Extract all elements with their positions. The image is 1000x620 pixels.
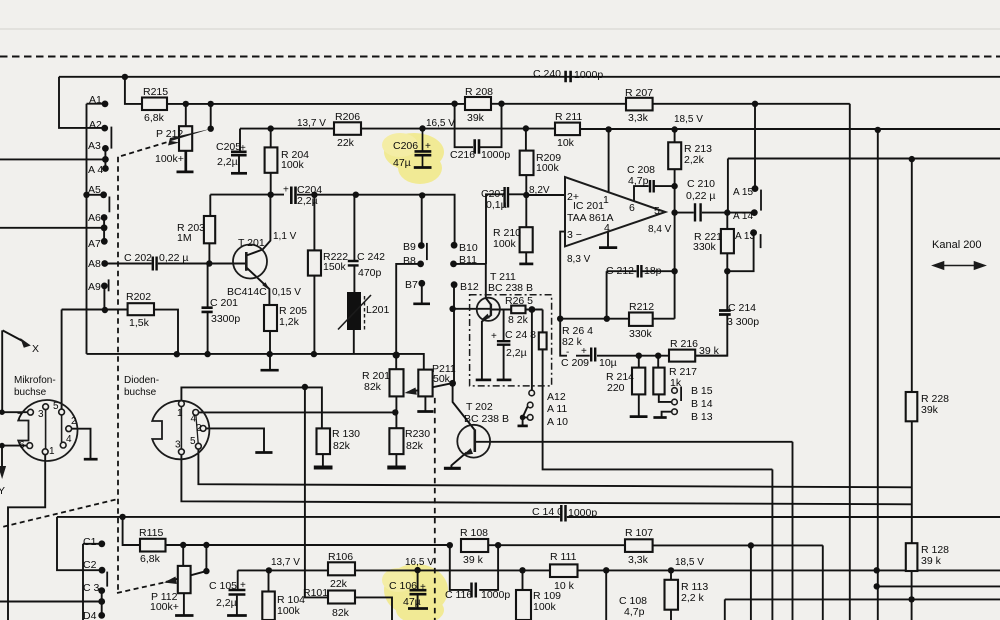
- svg-text:3: 3: [175, 440, 181, 451]
- mic pin 5 contact: [59, 409, 65, 415]
- svg-text:3 300p: 3 300p: [727, 316, 759, 328]
- dioden pin 5 contact: [196, 443, 202, 449]
- svg-text:C2: C2: [83, 559, 97, 571]
- svg-text:100k+: 100k+: [150, 601, 179, 613]
- junction dots C209 row: [636, 353, 642, 359]
- junction dot Kanal wire x912: [909, 156, 915, 162]
- wire: X arrow diagonal: [3, 330, 23, 341]
- junction dot P212 wiper: [208, 126, 214, 132]
- resistor R214: [632, 368, 645, 395]
- svg-text:100k: 100k: [493, 238, 517, 250]
- resistor R207: [626, 98, 653, 111]
- svg-text:10k: 10k: [557, 137, 575, 149]
- wire: A9 drop to R202 node: [103, 286, 105, 310]
- svg-text:100k+: 100k+: [155, 153, 184, 165]
- junction dot A15 riser: [752, 101, 758, 107]
- svg-text:C 240: C 240: [533, 68, 561, 80]
- wire: B12 column down to wiper node: [453, 287, 455, 383]
- junction dot R213 top: [671, 126, 677, 132]
- capacitor C240: [566, 71, 571, 82]
- inductor L201 dashed core line: [364, 296, 366, 331]
- wire: output column x=674.6: [674, 130, 676, 319]
- wire: riser from y77 to R215 row: [125, 77, 142, 104]
- svg-text:C 212: C 212: [606, 265, 634, 277]
- svg-text:1: 1: [177, 408, 183, 419]
- resistor R265: [511, 306, 525, 314]
- wire: long vertical x=772: [771, 469, 773, 620]
- capacitor C105 plates: [229, 590, 246, 595]
- wire: C205 stem to ground: [238, 155, 240, 172]
- contact tick C2-C3: [106, 572, 108, 587]
- terminal dot A8: [101, 260, 108, 267]
- wire: dioden pin5 down then right (y approx 484): [198, 449, 911, 487]
- svg-text:6,8k: 6,8k: [144, 112, 165, 124]
- resistor R221: [721, 229, 734, 253]
- potentiometer P112 body: [178, 566, 191, 593]
- wire: X linkage vertical at left edge: [1, 330, 3, 412]
- wire: R104 riser: [268, 570, 270, 591]
- svg-text:B7: B7: [405, 279, 418, 291]
- wire: riser P212 top: [185, 104, 187, 126]
- wire: pin6 riser + C208 row: [634, 186, 675, 201]
- svg-text:47µ: 47µ: [393, 157, 411, 169]
- wire: C207 wire + drop to B11 node: [486, 194, 526, 264]
- svg-text:7: 7: [17, 412, 23, 423]
- svg-text:Y: Y: [0, 485, 5, 497]
- ground below C206: [414, 166, 432, 169]
- ground at op-amp pin4: [599, 246, 617, 249]
- highlight around C106: [382, 564, 448, 620]
- wire: B8 jog to R201 column: [396, 264, 420, 355]
- svg-text:18,5 V: 18,5 V: [674, 114, 703, 125]
- resistor R208: [465, 97, 491, 110]
- svg-text:1000p: 1000p: [568, 507, 597, 519]
- terminal dot B12: [451, 281, 458, 288]
- terminal dot A14: [751, 209, 758, 216]
- junction dots 13,7/16,5V bottom rail: [266, 567, 272, 573]
- resistor R205: [264, 305, 277, 331]
- svg-text:IC 201: IC 201: [573, 200, 604, 212]
- svg-text:A1: A1: [89, 94, 102, 106]
- terminal B13: [672, 409, 678, 415]
- svg-text:R230: R230: [405, 428, 430, 440]
- dashed separator line top: [0, 56, 1000, 58]
- junction dots R115 row: [180, 542, 186, 548]
- junction dot C212 node: [671, 268, 677, 274]
- wire: A13 drop: [727, 233, 753, 272]
- resistor R209: [520, 151, 534, 176]
- resistor R201: [390, 369, 404, 396]
- svg-text:buchse: buchse: [14, 387, 47, 398]
- wire: R204 bottom riser: [270, 173, 272, 195]
- svg-text:6: 6: [19, 440, 25, 451]
- svg-text:39k: 39k: [467, 112, 485, 124]
- ground below R205: [261, 369, 279, 372]
- ground below P212: [177, 151, 194, 172]
- wire: row y=586 right part: [877, 585, 1000, 587]
- wire: R113 riser: [670, 570, 672, 579]
- op-amp IC201 triangle: [565, 177, 665, 246]
- svg-text:1000p: 1000p: [481, 589, 510, 601]
- svg-text:C1: C1: [83, 536, 97, 548]
- svg-text:R212: R212: [629, 301, 654, 313]
- svg-text:1,1 V: 1,1 V: [273, 231, 297, 242]
- junction dots 13,7V / 16,5V rail: [268, 125, 274, 131]
- wire: C216 bypass loop around R208: [455, 104, 502, 148]
- svg-text:10µ: 10µ: [599, 357, 617, 369]
- potentiometer P212 body: [179, 126, 192, 151]
- svg-text:+: +: [491, 331, 497, 342]
- wire: 13,7V / 16,5V rail y=128.7: [240, 128, 1000, 130]
- svg-text:220: 220: [607, 382, 625, 394]
- resistor R212: [629, 313, 653, 326]
- mechanical link dashed branch to mic: [0, 500, 116, 528]
- wire: R222 top riser: [313, 195, 315, 251]
- junction dot R265 out: [529, 306, 536, 313]
- wire: R204 top riser: [270, 129, 272, 148]
- wire: C105 branch from 13,7V node: [238, 570, 269, 589]
- wire: long vertical x=878: [877, 130, 879, 620]
- capacitor C210 plates: [695, 203, 701, 221]
- wire: R264 column down to C209 row: [560, 319, 567, 356]
- svg-text:B 15: B 15: [691, 385, 713, 397]
- inductor L201 adjust arrow: [338, 295, 371, 330]
- junction dots C204 row: [268, 192, 274, 198]
- svg-text:A2: A2: [89, 119, 102, 131]
- wire: R209 top riser: [525, 129, 527, 151]
- terminal dot B8: [417, 261, 424, 268]
- wire: mic left pin to edge: [2, 411, 28, 413]
- wire: C202 row to T201 base: [105, 263, 246, 265]
- junction dot pin1-row branch: [302, 384, 308, 390]
- wire: A3-A4 contact link: [104, 148, 106, 168]
- wire: C205 branch: [239, 129, 241, 152]
- svg-text:2,2k: 2,2k: [684, 154, 705, 166]
- capacitor C248 plates: [497, 341, 511, 345]
- wire: P112 wiper node riser: [205, 545, 207, 571]
- wire: R222 bottom riser: [313, 276, 315, 354]
- wire: R214 stems: [638, 356, 640, 416]
- svg-text:R 211: R 211: [555, 111, 582, 123]
- svg-text:16,5 V: 16,5 V: [426, 118, 455, 129]
- wire: top horizontal rail y=77: [59, 76, 1000, 78]
- terminal dot A13: [750, 229, 757, 236]
- svg-text:+: +: [240, 143, 246, 154]
- svg-text:C 209: C 209: [561, 357, 589, 369]
- terminal dot A3: [102, 145, 109, 152]
- junction dot x878 rail: [875, 127, 881, 133]
- resistor R216: [669, 350, 695, 362]
- mic internal contact 5-4: [61, 415, 63, 443]
- resistor R264 small body: [539, 332, 547, 349]
- capacitor C206 stem: [422, 129, 424, 167]
- svg-text:C 214: C 214: [728, 302, 756, 314]
- ground below R210: [519, 263, 533, 266]
- svg-text:R 111: R 111: [550, 551, 577, 563]
- wire: R109 riser: [522, 570, 524, 590]
- wire: C209 row y=355.7: [576, 355, 727, 357]
- wire: R221 column: [726, 213, 728, 272]
- svg-text:D4: D4: [83, 610, 97, 620]
- mic pin 3 contact: [43, 404, 49, 410]
- dioden pin 3 contact: [179, 449, 185, 455]
- wire: chain down then right to x=772: [543, 350, 773, 470]
- terminal dot A6: [101, 214, 108, 221]
- resistor R130: [317, 428, 331, 454]
- resistor R113: [665, 580, 679, 610]
- wire: riser from C140 row to R115 row: [123, 517, 140, 545]
- svg-text:5: 5: [53, 401, 59, 412]
- ground below C105: [227, 614, 247, 617]
- junction dot C140 row: [119, 514, 125, 520]
- mechanical link dashed to P112: [117, 582, 166, 593]
- resistor R115: [140, 539, 166, 552]
- wire: op-amp pin2 wire: [526, 194, 565, 196]
- wire: C140 row left corner down to C2: [57, 517, 100, 570]
- wire: B9 riser: [421, 195, 423, 245]
- resistor R222: [308, 250, 321, 275]
- wire: 13,7/16,5V rail y=570.4: [269, 569, 1000, 571]
- resistor R104: [262, 592, 275, 620]
- wire: row y=599.5 with corner x=725: [725, 599, 1000, 620]
- potentiometer P211 wiper arrowhead: [405, 388, 417, 395]
- capacitor C201 plates: [202, 308, 213, 312]
- svg-text:8,3 V: 8,3 V: [567, 254, 591, 265]
- wire: long row y=354: [87, 354, 424, 370]
- svg-text:A 15: A 15: [733, 187, 753, 198]
- wire: B7 stem: [421, 283, 423, 303]
- junction dots R212 row: [557, 316, 563, 322]
- svg-text:B9: B9: [403, 241, 416, 253]
- svg-text:4,7p: 4,7p: [624, 606, 645, 618]
- wire: pin1 riser: [608, 130, 610, 193]
- contact tick A13: [760, 234, 762, 248]
- junction dot C208 node: [671, 183, 677, 189]
- svg-text:2,2 k: 2,2 k: [681, 592, 705, 604]
- capacitor C204 plates: [291, 187, 295, 205]
- svg-text:22k: 22k: [330, 578, 348, 590]
- wire: riser P212 wiper node: [210, 104, 212, 129]
- highlight around C206: [382, 133, 444, 184]
- wire: C248 bottom stem: [503, 345, 505, 379]
- svg-text:B12: B12: [460, 281, 479, 293]
- svg-text:2,2µ: 2,2µ: [297, 195, 318, 207]
- terminal dot A15: [752, 185, 759, 192]
- svg-text:R 208: R 208: [465, 86, 493, 98]
- svg-text:8,4 V: 8,4 V: [648, 224, 672, 235]
- resistor R128: [906, 543, 918, 571]
- junction dot 18,5V x878: [874, 567, 880, 573]
- ground T211 emitter: [476, 379, 492, 382]
- potentiometer P112 wiper arrowhead: [164, 577, 177, 585]
- wire: B11 to T211 collector node: [456, 263, 486, 265]
- wire: long vertical x=792: [792, 442, 794, 620]
- svg-text:0,1µ: 0,1µ: [486, 199, 507, 211]
- svg-text:82k: 82k: [332, 607, 350, 619]
- svg-text:330k: 330k: [629, 328, 653, 340]
- junction dot R128 bottom: [908, 596, 914, 602]
- wire: A1 stub from bus: [87, 103, 103, 105]
- svg-text:2,2µ: 2,2µ: [506, 347, 527, 359]
- svg-text:3: 3: [38, 409, 44, 420]
- svg-text:1k: 1k: [670, 377, 682, 389]
- contact tick A2-A3: [110, 127, 112, 149]
- svg-text:B 14: B 14: [691, 398, 713, 410]
- wire: Y stem at left edge: [1, 446, 3, 466]
- junction dot R221 bottom: [724, 268, 730, 274]
- svg-text:1000p: 1000p: [574, 69, 603, 81]
- mic pin 7 contact: [28, 409, 34, 415]
- wire: vertical from R107 row corner x=823: [822, 545, 824, 620]
- terminal dot A5: [100, 191, 107, 198]
- capacitor C242 plates: [348, 261, 359, 265]
- wire: T201 collector to R204 node: [263, 195, 271, 250]
- terminal dot A1: [102, 101, 109, 108]
- wire: R130 bottom stem: [322, 454, 324, 467]
- svg-text:A 4: A 4: [88, 164, 103, 176]
- wire: C201 bottom stem: [207, 313, 209, 354]
- wire: mic pin5 riser x=61.6: [61, 310, 63, 410]
- svg-text:100k: 100k: [533, 601, 557, 613]
- wire: C3-D4 link: [101, 591, 103, 616]
- inductor L201 core block: [347, 292, 361, 330]
- svg-text:+: +: [283, 185, 289, 196]
- transistor T201: [233, 245, 269, 289]
- ground at A10 contact: [518, 425, 528, 428]
- wire: A5 stub from bus: [87, 194, 102, 196]
- terminal dot B7: [418, 280, 425, 287]
- svg-text:C 116: C 116: [445, 589, 472, 601]
- svg-text:+: +: [240, 580, 246, 591]
- svg-text:A3: A3: [88, 140, 101, 152]
- svg-text:+: +: [420, 582, 426, 593]
- svg-text:C 210: C 210: [687, 178, 715, 190]
- svg-text:A5: A5: [88, 184, 101, 196]
- ground at B13: [653, 416, 666, 419]
- svg-text:A 11: A 11: [547, 403, 567, 415]
- dioden internal contact 4-5: [196, 415, 198, 443]
- junction dot pin4 row: [392, 409, 398, 415]
- ground below R214: [630, 415, 648, 418]
- wire: T211 emitter: [482, 316, 491, 380]
- svg-text:C 105: C 105: [209, 580, 237, 592]
- wire: R101 out then down: [355, 597, 392, 620]
- dioden internal contact 1-3: [180, 406, 182, 449]
- terminal dot C1: [98, 540, 105, 547]
- svg-text:C 201: C 201: [210, 297, 238, 309]
- wire: A15 riser from y104 rail: [754, 104, 756, 189]
- svg-text:R 216: R 216: [670, 338, 698, 350]
- wire: C116 loop below R108: [450, 545, 498, 590]
- wire: C212 row: [607, 270, 675, 272]
- junction dot y77: [122, 74, 128, 80]
- svg-text:82k: 82k: [406, 440, 424, 452]
- wire: R115 output row y=545.1: [166, 544, 823, 546]
- svg-text:C 202: C 202: [124, 252, 152, 264]
- resistor R213: [668, 142, 681, 169]
- terminal A11: [527, 402, 533, 408]
- terminal dot B10: [451, 242, 458, 249]
- wire: dioden pin3 down then right (y approx 501): [181, 455, 911, 505]
- svg-text:R 207: R 207: [625, 87, 653, 99]
- wire: R203 top riser: [209, 195, 211, 216]
- contact tick B9: [426, 243, 428, 260]
- svg-text:330k: 330k: [693, 241, 717, 253]
- wire: dioden pin1 riser + pin1 row y=387.5: [181, 387, 322, 428]
- wire: R201 top riser: [395, 355, 397, 369]
- svg-text:6,8k: 6,8k: [140, 553, 161, 565]
- junction dots R108: [447, 542, 453, 548]
- svg-text:X: X: [32, 343, 39, 355]
- svg-text:2: 2: [71, 416, 77, 427]
- ground C248: [497, 379, 512, 382]
- svg-text:A8: A8: [88, 258, 101, 270]
- wire: A12 column: [531, 310, 533, 391]
- svg-text:18p: 18p: [644, 265, 662, 277]
- junction dot base node T201: [206, 260, 212, 266]
- svg-text:4,7p: 4,7p: [628, 175, 649, 187]
- svg-text:A9: A9: [88, 281, 101, 293]
- junction dot A11 ground contact: [520, 415, 526, 421]
- svg-text:47µ: 47µ: [403, 596, 421, 608]
- ground below C205: [231, 172, 247, 175]
- wire: long vertical x=850: [849, 104, 851, 620]
- resistor R228: [906, 392, 918, 421]
- wire: stub below R111 node: [605, 570, 607, 620]
- wire: riser P112 top: [182, 545, 184, 566]
- wire: R265 out to A12 node: [526, 309, 543, 311]
- svg-text:8,2V: 8,2V: [529, 185, 550, 196]
- resistor R108: [461, 539, 488, 552]
- svg-text:R206: R206: [335, 111, 360, 123]
- svg-text:B8: B8: [403, 255, 416, 267]
- ground below P112: [175, 614, 193, 617]
- wire: L201 bottom: [353, 330, 355, 354]
- capacitor C212 plates: [638, 265, 642, 278]
- capacitor C106 plates: [410, 590, 427, 594]
- Kanal 200 double arrow: [934, 262, 985, 269]
- svg-text:1000p: 1000p: [481, 149, 510, 161]
- ground below R130: [314, 466, 333, 470]
- dioden pin 1 contact: [179, 401, 185, 407]
- wire: R230 bottom stem: [395, 454, 397, 467]
- svg-text:Dioden-: Dioden-: [124, 375, 159, 386]
- resistor R107: [625, 539, 653, 552]
- wire: row to A6/A7 contact from left edge: [0, 227, 102, 229]
- contact tick A8-A9: [108, 279, 110, 291]
- wire: column x=912 mid part: [911, 421, 913, 543]
- svg-text:-: -: [566, 347, 569, 358]
- Diodenbuchse connector body: [152, 401, 209, 460]
- junction dot pin1 riser: [605, 126, 611, 132]
- terminal dot B11: [450, 261, 457, 268]
- mic internal contact 3-1: [45, 410, 47, 449]
- svg-text:C 242: C 242: [357, 251, 385, 263]
- svg-text:T 202: T 202: [466, 401, 493, 413]
- ground T202 emitter: [444, 467, 461, 470]
- wire: C214 column: [695, 271, 727, 356]
- Y arrow head: [0, 466, 6, 479]
- mechanical link dashed vertical x=434 from P211: [434, 398, 436, 620]
- wire: C242 to L201: [353, 266, 355, 292]
- contact tick A15-A14: [760, 190, 762, 211]
- wire: C106 stem: [417, 570, 419, 608]
- junction dot P112 wiper node: [203, 568, 209, 574]
- svg-text:8 2k: 8 2k: [508, 314, 529, 326]
- wire: B13 hook to ground: [662, 412, 672, 418]
- wire: mic pin2 to ground: [71, 429, 90, 459]
- svg-text:R 107: R 107: [625, 527, 653, 539]
